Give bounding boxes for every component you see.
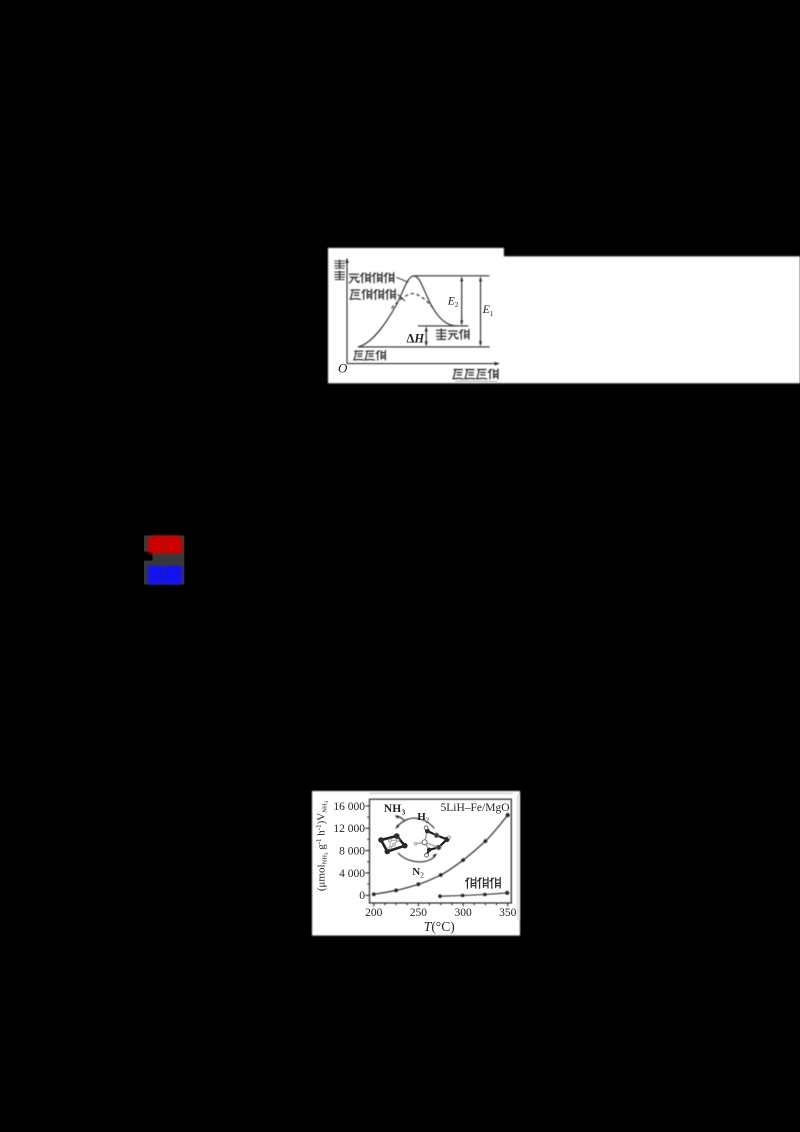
plot frame	[370, 799, 512, 903]
peak top reference line	[414, 275, 490, 277]
y major ticks	[365, 806, 369, 895]
svg-text:8 000: 8 000	[339, 846, 365, 858]
svg-text:12 000: 12 000	[333, 823, 365, 835]
flat curve data dots	[438, 891, 509, 898]
molecule cluster left	[378, 833, 407, 854]
TOP CHART cjk labels	[335, 260, 498, 379]
dH double arrow	[425, 329, 427, 345]
svg-text:NH: NH	[384, 803, 401, 815]
grey patch	[144, 536, 184, 585]
solid curve (no catalyst)	[358, 276, 457, 347]
reactant baseline	[358, 346, 490, 348]
svg-text:O: O	[338, 361, 348, 376]
svg-text:2: 2	[455, 300, 459, 309]
label: energy (vertical)	[335, 260, 345, 268]
x minor ticks	[385, 903, 497, 905]
svg-text:16 000: 16 000	[333, 801, 365, 813]
label: no catalyst	[349, 274, 358, 283]
BOTTOM CHART text	[315, 800, 517, 933]
label: reaction progress	[453, 370, 463, 379]
svg-text:1: 1	[490, 309, 494, 318]
cycle lower arc	[398, 853, 436, 862]
white panel top band	[328, 248, 800, 383]
TOP CHART latin labels	[338, 296, 497, 382]
svg-text:350: 350	[499, 907, 517, 919]
svg-text:200: 200	[365, 907, 383, 919]
y axis	[346, 260, 348, 364]
dashed curve (with catalyst)	[392, 293, 435, 310]
leader line for no-catalyst label	[397, 277, 409, 282]
E2 double arrow	[461, 279, 463, 323]
x major ticks	[374, 903, 508, 906]
svg-text:3: 3	[402, 808, 406, 816]
y minor ticks	[367, 817, 369, 884]
svg-text:E: E	[447, 296, 455, 308]
svg-text:250: 250	[410, 907, 428, 919]
BOTTOM CHART	[365, 793, 518, 920]
red blurred glyphs	[148, 536, 182, 554]
cycle upper arc	[396, 818, 434, 828]
svg-text:5LiH–Fe/MgO: 5LiH–Fe/MgO	[441, 802, 510, 814]
label: reactants	[354, 351, 364, 360]
rising curve 5LiH-Fe/MgO	[374, 815, 508, 894]
grey stripe above frame	[370, 792, 513, 794]
product level line	[418, 325, 469, 327]
blue blurred glyphs	[148, 566, 182, 585]
svg-text:2: 2	[420, 870, 424, 879]
leader line for catalyst label	[398, 294, 406, 301]
x axis arrowhead	[495, 362, 501, 366]
svg-text:2: 2	[425, 815, 429, 824]
svg-text:4 000: 4 000	[339, 868, 365, 880]
svg-text:ΔH: ΔH	[407, 331, 426, 345]
rising curve data dots	[372, 813, 510, 896]
label: products	[437, 329, 446, 339]
label: with catalyst	[350, 290, 360, 299]
svg-text:E: E	[482, 304, 490, 316]
TOP CHART	[345, 258, 500, 366]
svg-text:T(°C): T(°C)	[424, 919, 455, 934]
svg-text:N: N	[412, 866, 420, 878]
flat curve iron catalyst	[440, 893, 507, 896]
y axis arrowhead	[345, 258, 349, 264]
faint watermark line	[456, 380, 497, 382]
x axis	[347, 363, 495, 365]
svg-text:300: 300	[454, 907, 472, 919]
grey strip right edge	[517, 794, 520, 920]
black notch	[144, 552, 153, 561]
E1 double arrow	[480, 279, 482, 344]
arrow to NH3	[396, 816, 404, 821]
molecule cluster right	[414, 826, 451, 857]
red mark block	[144, 536, 184, 585]
iron catalyst cjk label	[465, 878, 500, 889]
white panel bottom chart	[312, 791, 520, 936]
svg-text:0: 0	[359, 890, 365, 902]
